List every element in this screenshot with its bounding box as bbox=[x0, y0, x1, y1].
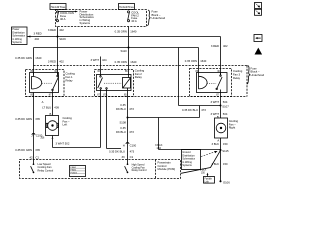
svg-text:Fusible: Fusible bbox=[205, 179, 213, 181]
svg-text:150: 150 bbox=[223, 142, 228, 146]
svg-text:0.35 DK GRN: 0.35 DK GRN bbox=[15, 148, 32, 152]
svg-text:402: 402 bbox=[59, 59, 64, 63]
svg-text:F AN1: F AN1 bbox=[71, 166, 77, 169]
svg-text:B: B bbox=[49, 112, 51, 116]
svg-text:Right: Right bbox=[229, 126, 236, 130]
svg-text:Relay: Relay bbox=[135, 75, 143, 79]
svg-text:0.35 ORN: 0.35 ORN bbox=[115, 30, 127, 34]
svg-text:402: 402 bbox=[59, 28, 64, 32]
svg-text:F AN2: F AN2 bbox=[71, 169, 77, 172]
svg-text:504: 504 bbox=[223, 100, 228, 104]
svg-text:S110: S110 bbox=[120, 49, 127, 53]
svg-text:3 WHT 502: 3 WHT 502 bbox=[56, 142, 70, 146]
svg-text:3 RED: 3 RED bbox=[211, 44, 219, 48]
svg-text:473: 473 bbox=[129, 130, 134, 134]
svg-text:S107: S107 bbox=[222, 104, 229, 108]
svg-text:473: 473 bbox=[129, 107, 134, 111]
svg-text:S115: S115 bbox=[222, 149, 229, 153]
svg-text:3 WHT: 3 WHT bbox=[210, 100, 219, 104]
svg-text:G106: G106 bbox=[223, 181, 230, 185]
svg-text:Hot At All Times: Hot At All Times bbox=[51, 6, 66, 9]
svg-text:Hot At All Times: Hot At All Times bbox=[119, 6, 134, 9]
svg-text:0.35 DK GRN: 0.35 DK GRN bbox=[15, 117, 32, 121]
svg-text:C100: C100 bbox=[130, 143, 137, 147]
svg-text:0.35: 0.35 bbox=[120, 103, 126, 107]
svg-text:S109: S109 bbox=[59, 37, 66, 41]
svg-text:LT BLU: LT BLU bbox=[42, 105, 51, 109]
svg-text:Relay: Relay bbox=[233, 76, 241, 80]
svg-text:504: 504 bbox=[223, 112, 228, 116]
svg-text:C1: C1 bbox=[130, 155, 134, 159]
svg-text:1640: 1640 bbox=[200, 59, 207, 63]
svg-text:87A: 87A bbox=[103, 94, 108, 97]
svg-text:A: A bbox=[257, 51, 259, 55]
svg-text:1640: 1640 bbox=[130, 60, 137, 64]
svg-text:PCM B: PCM B bbox=[71, 172, 78, 174]
svg-text:Relay Control: Relay Control bbox=[132, 169, 147, 172]
svg-text:Relay Control: Relay Control bbox=[38, 168, 54, 172]
svg-text:DK BLU: DK BLU bbox=[116, 130, 126, 134]
svg-text:1640: 1640 bbox=[130, 30, 137, 34]
svg-text:40 A: 40 A bbox=[60, 17, 66, 21]
svg-text:1640: 1640 bbox=[35, 56, 42, 60]
svg-text:473: 473 bbox=[130, 150, 135, 154]
svg-text:S108: S108 bbox=[119, 120, 126, 124]
svg-text:3 RED: 3 RED bbox=[48, 28, 56, 32]
svg-text:409: 409 bbox=[54, 105, 59, 109]
svg-text:402: 402 bbox=[223, 44, 228, 48]
svg-text:Systems: Systems bbox=[12, 41, 22, 44]
svg-text:473: 473 bbox=[201, 108, 206, 112]
svg-text:0.35 DK BLU: 0.35 DK BLU bbox=[109, 150, 125, 154]
svg-text:Relay: Relay bbox=[66, 78, 74, 82]
svg-text:A: A bbox=[42, 100, 44, 104]
svg-text:402: 402 bbox=[35, 37, 40, 41]
svg-text:1 BLK: 1 BLK bbox=[200, 169, 207, 171]
svg-text:335: 335 bbox=[35, 117, 40, 121]
svg-text:424: 424 bbox=[102, 58, 107, 62]
svg-text:150: 150 bbox=[156, 146, 161, 150]
svg-text:3 WHT: 3 WHT bbox=[90, 58, 99, 62]
svg-text:0.35 ORN: 0.35 ORN bbox=[115, 60, 127, 64]
svg-text:3 BLK: 3 BLK bbox=[212, 142, 220, 146]
svg-text:33: 33 bbox=[122, 155, 126, 159]
svg-text:150: 150 bbox=[223, 162, 228, 166]
svg-text:Module (PCM): Module (PCM) bbox=[158, 167, 176, 171]
svg-text:0.35 DK BLU: 0.35 DK BLU bbox=[182, 108, 198, 112]
svg-text:42: 42 bbox=[29, 155, 33, 159]
svg-text:0.35 DK GRN: 0.35 DK GRN bbox=[15, 56, 32, 60]
svg-text:Underhood: Underhood bbox=[152, 16, 166, 20]
svg-text:Systems: Systems bbox=[182, 164, 192, 167]
svg-text:0.35: 0.35 bbox=[120, 126, 126, 130]
svg-text:3 RED: 3 RED bbox=[34, 32, 42, 36]
svg-text:3 RED: 3 RED bbox=[48, 59, 56, 63]
svg-text:Systems: Systems bbox=[80, 21, 91, 25]
svg-text:40 A: 40 A bbox=[131, 19, 137, 23]
svg-text:335: 335 bbox=[35, 148, 40, 152]
svg-text:Underhood: Underhood bbox=[251, 73, 265, 77]
svg-text:H: H bbox=[123, 143, 125, 147]
svg-text:C1: C1 bbox=[36, 155, 40, 159]
svg-text:DK BLU: DK BLU bbox=[116, 107, 126, 111]
svg-text:Left: Left bbox=[63, 123, 68, 127]
svg-text:0.35 ORN: 0.35 ORN bbox=[185, 59, 197, 63]
